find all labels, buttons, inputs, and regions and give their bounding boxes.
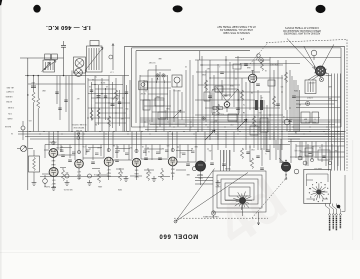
pilot symbol on pointer line — [211, 211, 215, 215]
small socket circle c — [294, 169, 299, 174]
bus junction dots 2 — [140, 127, 141, 128]
small box speaker jack — [139, 81, 148, 90]
tube V2 — [75, 159, 84, 168]
svg-text:UNLESS: UNLESS — [5, 95, 13, 97]
svg-text:1ST IF: 1ST IF — [101, 81, 106, 83]
dial cord diagonal 2 — [176, 173, 249, 222]
small socket circle a — [65, 174, 69, 178]
arrow to V9 — [279, 158, 284, 163]
cable labels rotated — [329, 216, 331, 231]
arrow from note to plug — [287, 39, 315, 69]
center mesh caps — [208, 95, 212, 97]
svg-text:6K7: 6K7 — [76, 97, 79, 99]
svg-text:T4: T4 — [243, 103, 245, 105]
svg-text:.5: .5 — [265, 152, 266, 154]
ink blob right of switch — [337, 205, 341, 209]
tube V4 second row — [248, 74, 256, 82]
svg-text:ALL RES: ALL RES — [6, 86, 14, 89]
svg-text:C9: C9 — [185, 65, 187, 67]
svg-text:CONNECT AT THESE POINTS: CONNECT AT THESE POINTS — [285, 26, 319, 29]
right row ticks — [295, 144, 297, 158]
filter cap can A — [301, 112, 310, 123]
node dots center — [201, 64, 202, 65]
mid-right components — [284, 119, 290, 125]
svg-text:700: 700 — [165, 109, 168, 111]
tube V3 arms — [217, 87, 228, 102]
starburst horizontal line — [225, 200, 240, 202]
resistor R4 — [91, 108, 93, 110]
filter cap can B — [312, 112, 319, 123]
capacitor C2 — [31, 85, 36, 87]
punch hole left — [33, 5, 40, 13]
svg-text:.02: .02 — [283, 115, 285, 117]
svg-text:8MF: 8MF — [328, 85, 331, 87]
right horizontal rows — [296, 96, 340, 98]
main bus line 5 — [45, 144, 290, 146]
svg-text:50: 50 — [11, 132, 13, 134]
svg-text:.02: .02 — [142, 145, 144, 147]
wire loop outer right — [344, 46, 346, 170]
svg-text:VOL: VOL — [28, 119, 31, 121]
oscillator enclosure box — [212, 89, 239, 115]
resistor R3 box — [29, 156, 40, 172]
tube row small caps — [61, 154, 65, 156]
wire vertical x85.5 — [85, 70, 87, 132]
mesh mid-left horizontal stubs — [88, 79, 109, 81]
mesh mid-left vertical wires — [87, 78, 89, 132]
resistor R1 — [33, 76, 35, 92]
page corner mark top-left — [0, 0, 2, 6]
svg-text:MF: MF — [191, 147, 193, 149]
svg-text:B: B — [324, 183, 325, 185]
wire vertical from C1 — [63, 58, 65, 76]
tube row mid components — [246, 151, 249, 153]
svg-text:1ST DET: 1ST DET — [149, 61, 156, 63]
right row small circles — [303, 161, 307, 165]
tube V5 — [104, 157, 113, 166]
svg-text:8: 8 — [180, 151, 181, 153]
center mesh small boxes — [215, 86, 223, 92]
capacitor C4 — [111, 103, 115, 105]
grid cap circles — [52, 141, 55, 144]
cord pulley at apex — [174, 220, 177, 223]
svg-text:C12: C12 — [230, 123, 233, 125]
svg-text:PHONO: PHONO — [43, 185, 50, 187]
svg-text:8MF: 8MF — [212, 111, 215, 113]
svg-text:450: 450 — [259, 111, 262, 113]
punch hole middle — [173, 5, 183, 12]
wires volume area — [17, 148, 21, 150]
circle cross node — [202, 117, 205, 120]
left caps extra — [55, 91, 58, 93]
wire from upper right to lugs — [342, 175, 346, 212]
bus risers center — [217, 132, 219, 151]
svg-text:.05: .05 — [265, 69, 267, 71]
dial lamp — [311, 50, 317, 56]
nested rect loop 3 — [221, 179, 258, 204]
output transformer T3 — [305, 80, 316, 94]
svg-text:.05: .05 — [106, 85, 108, 87]
svg-text:8: 8 — [314, 118, 315, 120]
ground below R3 — [33, 180, 35, 183]
wire loop inner left — [131, 48, 133, 127]
wire loop third — [135, 51, 137, 123]
punch hole right — [316, 5, 326, 13]
right bus verticals — [328, 74, 330, 171]
svg-text:SW ON VOL: SW ON VOL — [63, 188, 72, 190]
extra bus band lines — [140, 119, 341, 121]
tube V8 dark — [196, 161, 206, 171]
right bus horizontals lower — [288, 131, 345, 133]
svg-text:250: 250 — [60, 148, 63, 150]
svg-text:50: 50 — [235, 77, 237, 79]
component circle on arrow wire — [109, 55, 113, 59]
right small components near bus — [305, 148, 313, 156]
wire loop outer left — [124, 46, 126, 131]
arrow below nested rects — [257, 212, 259, 225]
wire vertical x72 — [71, 71, 73, 132]
trimmer circle right of V4 — [259, 58, 264, 63]
wire loop inner bottom — [132, 126, 342, 128]
center mesh resistors — [204, 80, 207, 91]
capacitor C1 — [61, 45, 66, 47]
svg-text:ADDING AUXILIARY SPEAKERS: ADDING AUXILIARY SPEAKERS — [283, 32, 320, 35]
small socket circle b — [88, 174, 92, 178]
dashed pointer line — [174, 217, 268, 219]
trimmer arrows osc — [173, 110, 181, 118]
right row caps — [308, 151, 311, 153]
svg-text:300: 300 — [66, 171, 69, 173]
left page edge shade — [0, 0, 2, 279]
svg-text:8MF: 8MF — [304, 118, 307, 120]
nested rect loop 4 — [225, 183, 254, 200]
wire loop inner right — [340, 48, 342, 127]
band switch box — [304, 169, 331, 203]
svg-text:450: 450 — [209, 149, 212, 151]
svg-text:250: 250 — [126, 107, 129, 109]
tiny boxes row under V3 — [213, 107, 217, 110]
nested rect loop 2 — [217, 175, 262, 208]
trimmer arrow tuning cap A — [205, 130, 215, 140]
trimmer symbol below labels — [77, 133, 80, 136]
svg-text:350: 350 — [149, 171, 152, 173]
dial cord diagonal dashed — [252, 177, 287, 218]
mesh center horizontals — [195, 59, 270, 61]
wires into nested rects — [220, 150, 222, 171]
svg-text:M=1000: M=1000 — [5, 125, 11, 127]
pin check circle — [319, 77, 323, 81]
inter-tube dots — [61, 146, 62, 147]
speaker plug P1 — [316, 66, 326, 76]
tube V3 second row — [224, 102, 230, 108]
svg-text:.01: .01 — [148, 150, 150, 152]
dashed border top — [266, 40, 347, 43]
svg-text:FIELD 450: FIELD 450 — [308, 121, 316, 123]
svg-text:2ND DET: 2ND DET — [270, 63, 277, 65]
wire below tube row left — [40, 176, 128, 178]
svg-text:250M: 250M — [229, 84, 234, 86]
switch contacts — [328, 194, 329, 195]
resistor R2 — [37, 76, 39, 98]
tube row extra ticks — [44, 145, 46, 159]
trimmer screw A — [156, 74, 159, 77]
svg-text:250M: 250M — [293, 89, 298, 91]
svg-text:460: 460 — [112, 97, 115, 99]
extra right horizontals above switch — [296, 145, 345, 147]
tube V9 dark — [281, 162, 290, 171]
wires plug to transformer — [308, 75, 316, 80]
svg-text:VOLUME CONTROL: VOLUME CONTROL — [71, 123, 86, 125]
wire loop inner top double — [132, 47, 342, 49]
wire loop outer top — [125, 45, 345, 47]
dashed border right — [346, 40, 348, 171]
switch inner wires — [307, 173, 329, 175]
mesh osc horizontals — [148, 69, 171, 71]
RF transformer T1 — [87, 46, 103, 72]
main bus line 4 — [30, 138, 300, 140]
svg-text:.05: .05 — [261, 96, 263, 98]
tube V1a 6A8 — [49, 149, 58, 158]
svg-text:25: 25 — [319, 146, 321, 148]
switch S1 — [21, 126, 25, 130]
svg-text:NOTED: NOTED — [5, 100, 12, 102]
antenna coil L1 — [43, 60, 55, 72]
svg-text:OUTPUT: OUTPUT — [309, 81, 316, 83]
svg-text:OSC MOD: OSC MOD — [48, 140, 56, 142]
ground symbols tube row — [66, 180, 68, 183]
osc area fill verticals — [169, 90, 171, 127]
oscillator coil box L2 — [172, 75, 182, 87]
right bus top connects — [326, 73, 329, 75]
svg-text:8MF: 8MF — [328, 97, 331, 99]
dial cord diagonal 1 — [176, 169, 215, 222]
bottom page crease — [0, 252, 200, 253]
node dots mid-left — [94, 84, 95, 85]
svg-text:C4: C4 — [89, 85, 91, 87]
main bus line 2 — [18, 133, 341, 135]
tube V7 — [168, 157, 177, 166]
right page crease — [352, 140, 353, 240]
boxes above L1 — [45, 54, 51, 60]
trimmer circle near 2 5 — [257, 54, 261, 58]
svg-text:C8: C8 — [92, 78, 94, 80]
svg-text:DIAL DRIVE CABLE: DIAL DRIVE CABLE — [202, 215, 218, 218]
osc area small boxes — [155, 98, 164, 106]
wires between tubes horizontal — [44, 149, 49, 151]
left verticals extra — [56, 76, 58, 104]
svg-text:C15: C15 — [82, 145, 85, 147]
svg-text:100: 100 — [281, 85, 284, 87]
speaker cone V left arm — [304, 46, 318, 71]
cable lug circles — [329, 214, 331, 216]
junction dots on bus — [29, 131, 30, 132]
svg-text:WHEN CHANGING SPEAKER OR: WHEN CHANGING SPEAKER OR — [283, 29, 321, 32]
svg-text:8MF: 8MF — [186, 173, 189, 175]
left-of-bus verticals right area — [295, 80, 297, 132]
tube row lower wires — [52, 157, 54, 167]
svg-text:1ST DET: 1ST DET — [140, 92, 146, 94]
starburst vertical line — [242, 204, 244, 216]
tube socket top view X1 — [74, 57, 86, 73]
svg-text:OSC COIL: OSC COIL — [173, 89, 181, 91]
mid band horizontals — [140, 121, 341, 123]
tube socket lower circle — [75, 69, 83, 77]
svg-text:6A8: 6A8 — [158, 57, 161, 60]
wire left edge vertical — [27, 58, 29, 190]
svg-text:6K7: 6K7 — [206, 67, 209, 69]
svg-text:C IN MF: C IN MF — [8, 106, 14, 108]
inter-tube marks row — [60, 149, 64, 151]
volume control VC1 — [21, 146, 27, 152]
tube row riser wires — [48, 132, 50, 150]
svg-text:MODEL 660: MODEL 660 — [159, 233, 199, 239]
svg-text:300: 300 — [130, 146, 133, 148]
svg-text:5Z4: 5Z4 — [299, 149, 302, 151]
main bus line 1 — [18, 131, 346, 133]
electrolytic marker — [306, 102, 310, 106]
svg-text:240: 240 — [167, 144, 170, 146]
jack circle below volume — [43, 179, 48, 184]
svg-text:OHMS: OHMS — [7, 117, 13, 119]
electrolytic bars center — [255, 100, 258, 110]
antenna input arrow — [45, 63, 51, 70]
svg-text:TUNING: TUNING — [224, 167, 231, 169]
speaker cone V right arm — [320, 44, 334, 71]
svg-text:.05: .05 — [94, 173, 96, 175]
wires above V9 — [275, 140, 277, 160]
trimmer arrow tuning cap B — [237, 119, 247, 129]
wire top-left horizontal — [20, 57, 64, 59]
svg-text:250M: 250M — [117, 188, 122, 190]
node dots left — [27, 75, 28, 76]
dot at V9 top — [285, 160, 286, 161]
svg-text:L1: L1 — [49, 59, 51, 61]
svg-text:T1: T1 — [95, 75, 97, 77]
svg-text:SHOWN IN THIS VIEW: SHOWN IN THIS VIEW — [223, 31, 250, 35]
nested rect loop 5 — [229, 187, 250, 196]
svg-text:C2: C2 — [145, 89, 147, 91]
band switch rotor — [317, 190, 321, 194]
mid-left extra marks — [90, 89, 93, 91]
wires exiting rects left — [195, 177, 213, 179]
second left bus — [28, 83, 85, 85]
cable leads from switch — [325, 204, 327, 207]
main bus line 3 — [25, 136, 335, 138]
nested rect loop 1 — [213, 171, 266, 212]
wire antenna bus — [25, 75, 129, 77]
svg-text:8MF: 8MF — [194, 145, 197, 147]
svg-text:40: 40 — [205, 123, 207, 125]
mesh center verticals — [197, 60, 199, 132]
tuning gang starburst — [240, 198, 246, 204]
tube V1b — [49, 168, 58, 177]
svg-text:50M: 50M — [166, 107, 170, 109]
small circle left of V8 — [192, 167, 196, 171]
capacitor C3 — [97, 95, 101, 97]
svg-text:I.F. — 460 K.C.: I.F. — 460 K.C. — [46, 24, 91, 30]
arrow wire left of loop — [112, 44, 114, 71]
cathode resistor marks row — [62, 168, 64, 170]
tube V6 — [132, 158, 140, 166]
tube row short horizontals — [60, 147, 72, 149]
svg-text:6-U-2 450: 6-U-2 450 — [216, 113, 224, 115]
svg-text:C 17: C 17 — [110, 71, 114, 73]
svg-text:1/2 WATT: 1/2 WATT — [6, 90, 13, 93]
mesh osc verticals — [139, 75, 141, 132]
trimmer screw B — [162, 74, 165, 77]
svg-text:.1: .1 — [219, 65, 220, 67]
dashed diag to border corner — [250, 43, 268, 65]
